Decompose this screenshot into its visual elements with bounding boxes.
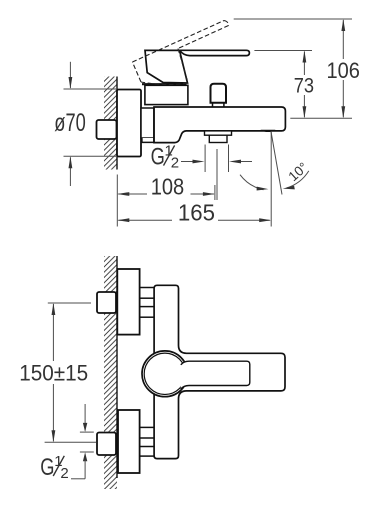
handle base (solid position) <box>145 50 188 83</box>
dimension 150±15 <box>19 303 96 442</box>
svg-text:2: 2 <box>60 465 68 482</box>
lower inlet fitting (front view) <box>97 433 116 456</box>
dimension 73 <box>254 51 314 119</box>
svg-text:150±15: 150±15 <box>19 360 88 385</box>
diverter knob on spout <box>211 84 227 107</box>
wall hatch (top view) <box>104 77 117 170</box>
svg-text:G: G <box>151 143 165 170</box>
svg-text:ø70: ø70 <box>54 109 86 137</box>
dimension 165 <box>117 132 271 227</box>
escutcheon (side view) <box>117 90 141 157</box>
faucet body bar and handle arm (front view) <box>154 285 285 458</box>
inlet fitting (side view, behind wall) <box>97 120 117 139</box>
body left vertical edge <box>153 107 155 143</box>
dimension 108 <box>117 173 215 226</box>
handle underside line <box>142 83 187 85</box>
handle cutout slot <box>181 361 250 389</box>
wall hatch (bottom view) <box>104 256 117 489</box>
handle boss circle <box>142 351 188 397</box>
upper inlet fitting (front view) <box>97 292 116 313</box>
svg-text:G: G <box>40 454 54 481</box>
faucet body and spout (side view) <box>154 107 285 143</box>
svg-text:165: 165 <box>178 200 215 226</box>
aerator under spout <box>205 131 232 143</box>
lower connector ladder <box>140 427 155 456</box>
connector between escutcheon and body <box>141 108 154 142</box>
upper connector ladder <box>140 288 155 318</box>
svg-text:106: 106 <box>327 58 360 83</box>
handle lever (solid position) <box>145 50 249 55</box>
spout outlet lip <box>261 130 276 132</box>
svg-text:2: 2 <box>171 155 179 172</box>
label G1/2 (bottom) <box>40 453 68 482</box>
cartridge collar under handle <box>145 85 188 104</box>
svg-text:108: 108 <box>151 173 185 199</box>
svg-text:73: 73 <box>294 73 314 97</box>
dimension Ø70 <box>54 62 117 186</box>
angle 10 degrees <box>240 132 311 195</box>
dimension G1/2 (aerator thread, top view) <box>151 142 252 200</box>
tolerance band marks <box>71 404 94 479</box>
dimension 106 <box>234 19 360 118</box>
upper escutcheon (front view) <box>117 269 139 335</box>
dashed handle (raised position) <box>132 21 228 85</box>
lower escutcheon (front view) <box>118 410 140 473</box>
